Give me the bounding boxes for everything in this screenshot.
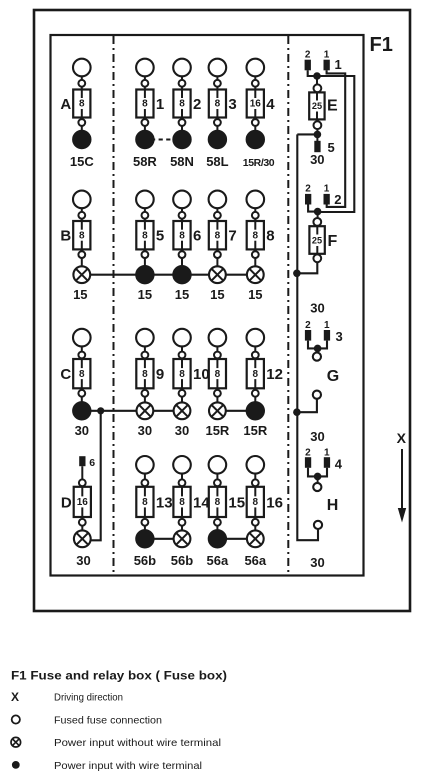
svg-text:A: A (60, 96, 71, 113)
svg-text:2: 2 (193, 96, 201, 113)
net label 58N (fuse 2) (170, 154, 194, 169)
terminal: power input with wire terminal (fuse 5) (136, 266, 154, 284)
net label 15R/30 (fuse 4) (243, 157, 275, 169)
terminal: power input with wire terminal (fuse C) (73, 402, 91, 420)
relay H pins 2,1 and wire label 4 (305, 447, 343, 471)
junction on bus at G (293, 408, 301, 416)
svg-text:7: 7 (228, 228, 236, 245)
terminal: power input with wire terminal (fuse 1) (136, 130, 154, 148)
svg-text:58N: 58N (170, 154, 194, 169)
fuse 8 (8A) (247, 191, 275, 266)
net label 30 (G) (310, 429, 324, 444)
svg-text:15: 15 (228, 494, 245, 511)
net label 15C (70, 154, 94, 169)
net label 15 (fuse 8) (248, 287, 262, 302)
terminal: power input without wire terminal (fuse B) (73, 266, 90, 283)
wire: row D link 56a (fuse15-fuse16) (217, 538, 255, 540)
svg-text:4: 4 (335, 457, 343, 472)
net label 30 (E) (310, 152, 324, 167)
terminal: power input without wire terminal (fuse 8) (247, 266, 264, 283)
svg-text:2: 2 (305, 320, 311, 331)
terminal: power input with wire terminal (fuse 12) (246, 402, 264, 420)
relay G contact (upper) (313, 353, 321, 361)
svg-text:15C: 15C (70, 154, 94, 169)
fuse 11 (unlabelled) (8A) (209, 329, 227, 402)
svg-text:56b: 56b (171, 553, 193, 568)
svg-text:16: 16 (250, 99, 262, 110)
svg-text:3: 3 (336, 329, 343, 344)
fuse and relay box F1 outer frame (34, 10, 410, 611)
legend power input without wire terminal symbol (11, 737, 221, 749)
svg-text:56a: 56a (244, 553, 266, 568)
svg-text:D: D (61, 494, 72, 511)
relay H contact (upper) (313, 483, 321, 491)
terminal: power input without wire terminal (fuse D) (74, 530, 91, 547)
fuse 16 (8A) (247, 456, 283, 530)
wire: row C link 15R (fuse11 to fuse12) (217, 410, 255, 412)
svg-text:8: 8 (142, 230, 148, 241)
svg-text:56b: 56b (134, 553, 156, 568)
svg-text:8: 8 (179, 230, 185, 241)
wire: E pin1 to relay F pin1 (right riser) (327, 70, 346, 207)
svg-text:F1: F1 (370, 34, 393, 56)
svg-text:8: 8 (142, 99, 148, 110)
wire: row B terminal bus 15 (82, 274, 256, 276)
svg-text:15: 15 (73, 287, 87, 302)
junction on row C bus 30 (97, 407, 104, 414)
svg-text:Fused fuse connection: Fused fuse connection (54, 715, 162, 727)
terminal: power input with wire terminal (fuse 3) (208, 130, 226, 148)
svg-text:16: 16 (266, 494, 283, 511)
fuse 15 (8A) (209, 456, 245, 530)
net label 58R (fuse 1) (133, 154, 157, 169)
fuse box inner frame (51, 35, 364, 576)
svg-text:8: 8 (179, 497, 185, 508)
svg-text:2: 2 (305, 447, 311, 458)
wire: G lower contact to bus (298, 399, 317, 412)
svg-text:30: 30 (310, 429, 324, 444)
net label 15 (fuse 7) (210, 287, 224, 302)
svg-text:8: 8 (253, 497, 259, 508)
svg-text:X: X (11, 690, 19, 704)
net label 30 (H) (310, 555, 324, 570)
svg-text:2: 2 (305, 50, 311, 61)
svg-text:8: 8 (142, 497, 148, 508)
fuse 10 (8A) (173, 329, 209, 402)
svg-text:8: 8 (253, 230, 259, 241)
legend O fused fuse connection (12, 715, 162, 727)
junction node G (314, 345, 322, 353)
svg-text:30: 30 (138, 423, 152, 438)
junction node E (313, 72, 321, 84)
net label 15R (fuse 12) (243, 423, 267, 438)
terminal: power input with wire terminal (fuse 6) (173, 266, 191, 284)
fuse 12 (8A) (247, 329, 283, 402)
svg-text:4: 4 (266, 96, 275, 113)
junction on bus at F (293, 270, 301, 278)
svg-text:8: 8 (79, 369, 85, 380)
wire: F output to bus (298, 262, 317, 273)
svg-text:30: 30 (175, 423, 189, 438)
wire: G pins to node (308, 341, 327, 349)
net label 30 (fuse 10) (175, 423, 189, 438)
relay G pins 2,1 and wire label 3 (305, 320, 343, 344)
fuse 13 (8A) (136, 456, 172, 530)
svg-text:3: 3 (228, 96, 236, 113)
fuse 14 (8A) (173, 456, 210, 530)
net label 56a (fuse 16) (244, 553, 266, 568)
wire: row C bus 30 (C to fuse10) (82, 410, 182, 412)
net label 30 (fuse C) (75, 423, 89, 438)
svg-text:25: 25 (312, 236, 322, 246)
svg-text:10: 10 (193, 366, 210, 383)
fuse C (8A) (60, 329, 90, 402)
wire: row D link 56b (fuse13-fuse14) (145, 538, 182, 540)
relay F pins 2,1 and wire label 2 (305, 184, 342, 208)
fuse B (8A) (60, 191, 90, 266)
svg-text:8: 8 (215, 230, 221, 241)
svg-text:8: 8 (179, 369, 185, 380)
svg-text:1: 1 (324, 320, 330, 331)
terminal: power input with wire terminal (fuse A) (73, 130, 91, 148)
relay E pins 2,1 and wire label 1 (305, 50, 342, 73)
fuse 3 (8A) (209, 59, 237, 131)
svg-text:9: 9 (156, 366, 164, 383)
terminal: power input with wire terminal (fuse 2) (173, 130, 191, 148)
svg-text:Power input without wire termi: Power input without wire terminal (54, 737, 221, 749)
terminal 5 (E output) and label (314, 136, 334, 155)
svg-text:25: 25 (312, 101, 322, 111)
terminal: power input without wire terminal (fuse 9) (137, 402, 154, 419)
wire: fuse D output up to node on 30 bus (91, 411, 101, 541)
svg-text:8: 8 (266, 228, 274, 245)
fuse 5 (8A) (136, 191, 164, 266)
wire: H pins to node (308, 468, 327, 477)
terminal 6 (fuse D input) (79, 456, 95, 479)
net label 30 (fuse D) (76, 553, 90, 568)
net label 15 (fuse B) (73, 287, 87, 302)
fuse 7 (8A) (209, 191, 237, 266)
net label 56b (fuse 13) (134, 553, 156, 568)
wire: E pin2 to node (308, 70, 314, 76)
svg-text:58L: 58L (206, 154, 228, 169)
svg-text:12: 12 (266, 366, 283, 383)
svg-text:C: C (60, 366, 71, 383)
terminal: power input without wire terminal (fuse 16) (247, 530, 264, 547)
fuse 6 (8A) (173, 191, 201, 266)
svg-text:G: G (327, 368, 339, 385)
svg-text:8: 8 (142, 369, 148, 380)
relay H contact (lower) (314, 521, 322, 529)
terminal: power input with wire terminal (fuse 4) (246, 130, 264, 148)
svg-text:15: 15 (210, 287, 224, 302)
wire: 30 bus (E output down to H) (297, 134, 318, 540)
svg-text:30: 30 (75, 423, 89, 438)
fuse A (8A) (60, 59, 90, 131)
net label 56a (fuse 15) (207, 553, 229, 568)
svg-text:13: 13 (156, 494, 173, 511)
fuse 2 (8A) (173, 59, 201, 131)
svg-text:8: 8 (79, 230, 85, 241)
svg-text:H: H (327, 497, 339, 514)
label F1 (370, 34, 393, 56)
svg-text:F1 Fuse and relay box ( Fuse b: F1 Fuse and relay box ( Fuse box) (11, 669, 227, 683)
svg-text:8: 8 (179, 99, 185, 110)
net label 15R (fuse 11 (unlabelled)) (205, 423, 229, 438)
svg-text:2: 2 (305, 184, 311, 195)
svg-text:30: 30 (310, 152, 324, 167)
legend X driving direction (11, 690, 123, 704)
wire: dashed link fuse1-fuse2 terminals (row A) (151, 138, 176, 140)
svg-text:5: 5 (156, 228, 164, 245)
svg-text:Driving direction: Driving direction (54, 692, 123, 704)
svg-text:8: 8 (215, 497, 221, 508)
svg-text:58R: 58R (133, 154, 157, 169)
fuse 4 (16A) (247, 59, 276, 131)
svg-text:1: 1 (324, 447, 330, 458)
label G (327, 368, 339, 385)
junction node H (314, 473, 322, 483)
svg-text:B: B (60, 228, 71, 245)
svg-text:1: 1 (335, 57, 342, 72)
terminal: power input without wire terminal (fuse 7) (209, 266, 226, 283)
fuse 1 (8A) (136, 59, 164, 131)
svg-text:30: 30 (310, 555, 324, 570)
svg-text:X: X (397, 430, 407, 446)
label H (327, 497, 339, 514)
svg-text:F: F (328, 233, 338, 250)
terminal: power input with wire terminal (fuse 15) (208, 530, 226, 548)
svg-text:2: 2 (334, 192, 341, 207)
net label 58L (fuse 3) (206, 154, 228, 169)
net label 30 (F) (310, 301, 324, 316)
net label 56b (fuse 14) (171, 553, 193, 568)
svg-text:1: 1 (156, 96, 164, 113)
legend power input with wire terminal symbol (12, 760, 202, 772)
driving direction X with arrow (397, 430, 407, 523)
section divider dash-dot left (113, 36, 115, 575)
relay G contact (lower) (313, 391, 321, 399)
svg-text:56a: 56a (207, 553, 229, 568)
svg-text:30: 30 (76, 553, 90, 568)
svg-text:1: 1 (324, 184, 330, 195)
svg-text:8: 8 (215, 99, 221, 110)
net label 15 (fuse 6) (175, 287, 189, 302)
terminal: power input with wire terminal (fuse 13) (136, 530, 154, 548)
svg-text:16: 16 (77, 497, 89, 508)
terminal: power input without wire terminal (fuse 14) (174, 530, 191, 547)
svg-text:8: 8 (253, 369, 259, 380)
wire: F pin2 to node (308, 205, 314, 212)
svg-text:15: 15 (138, 287, 152, 302)
fuse E (25A) (309, 84, 338, 129)
svg-text:Power input with wire terminal: Power input with wire terminal (54, 760, 202, 772)
svg-text:15R: 15R (205, 423, 229, 438)
svg-text:8: 8 (215, 369, 221, 380)
svg-text:15: 15 (175, 287, 189, 302)
net label 30 (fuse 9) (138, 423, 152, 438)
fuse F (25A) (309, 218, 337, 262)
junction node F (314, 208, 322, 218)
fuse 9 (8A) (136, 329, 164, 402)
svg-text:E: E (327, 98, 338, 115)
svg-text:15: 15 (248, 287, 262, 302)
svg-text:15R: 15R (243, 423, 267, 438)
section divider dash-dot right (287, 36, 289, 575)
svg-text:8: 8 (79, 99, 85, 110)
fuse D (16A) (61, 479, 91, 529)
svg-text:6: 6 (89, 457, 95, 469)
wire: E output node and branch to bus (297, 129, 321, 138)
svg-text:6: 6 (193, 228, 201, 245)
terminal: power input without wire terminal (fuse 10) (174, 402, 191, 419)
net label 15 (fuse 5) (138, 287, 152, 302)
svg-text:30: 30 (310, 301, 324, 316)
terminal: power input without wire terminal (fuse 11 (unlabelled)) (209, 402, 226, 419)
legend title F1 Fuse and relay box (11, 669, 227, 683)
svg-text:1: 1 (324, 50, 330, 61)
svg-text:15R/30: 15R/30 (243, 157, 275, 169)
svg-text:5: 5 (328, 140, 335, 155)
wire: E node to relay F node (outer riser) (321, 76, 355, 212)
